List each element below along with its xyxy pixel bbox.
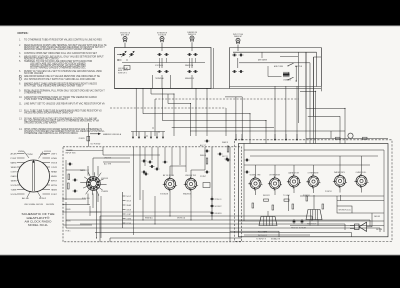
svg-text:OTHERWI: OTHERWI xyxy=(101,191,108,193)
svg-text:RESISTO: RESISTO xyxy=(263,195,270,197)
svg-text:OTHERWISE USE CONTROL ALL POSI: OTHERWISE USE CONTROL ALL POSITION INDIC… xyxy=(24,132,78,135)
svg-text:ARE TAKE: ARE TAKE xyxy=(121,33,130,36)
svg-text:USE V: USE V xyxy=(51,153,58,155)
svg-text:MODEL XR-2L: MODEL XR-2L xyxy=(28,225,49,227)
svg-text:VAC SHOWN POINT ONLY SWITCH 11: VAC SHOWN POINT ONLY SWITCH 117 GROUND A… xyxy=(24,78,95,81)
svg-text:SHOWN CA: SHOWN CA xyxy=(177,217,186,220)
svg-text:USE SIGNAL GROUN: USE SIGNAL GROUN xyxy=(24,203,43,206)
svg-text:SHOWN: SHOWN xyxy=(46,204,54,206)
svg-text:4.: 4. xyxy=(19,56,21,59)
svg-text:14.: 14. xyxy=(19,128,23,131)
svg-text:OTHERWISE ARE: OTHERWISE ARE xyxy=(24,92,42,95)
svg-text:11.: 11. xyxy=(19,103,22,106)
svg-text:GROUN: GROUN xyxy=(66,221,71,223)
svg-text:HEATHKIT®: HEATHKIT® xyxy=(27,216,50,220)
svg-text:POINT: POINT xyxy=(200,176,207,178)
svg-text:VTVM: VTVM xyxy=(26,154,33,156)
svg-text:FOR TUB: FOR TUB xyxy=(295,66,303,68)
svg-text:ALL VT: ALL VT xyxy=(200,144,207,147)
svg-text:5.: 5. xyxy=(19,60,21,63)
svg-text:FOR 1: FOR 1 xyxy=(66,231,71,233)
svg-text:VOLTAGE: VOLTAGE xyxy=(158,33,167,36)
svg-text:LINE: LINE xyxy=(51,158,58,160)
svg-text:FROM DU: FROM DU xyxy=(291,228,299,230)
svg-text:ARE MARKE: ARE MARKE xyxy=(258,59,268,62)
svg-text:READINGS: READINGS xyxy=(183,193,192,196)
svg-text:AT IN POSI: AT IN POSI xyxy=(163,174,174,177)
svg-text:IN REAR: IN REAR xyxy=(299,227,307,230)
svg-text:CONTROL OHMS SET INDICATED FUL: CONTROL OHMS SET INDICATED FULL VAC CAPA… xyxy=(24,52,97,55)
svg-text:AT AR: AT AR xyxy=(11,152,18,155)
svg-text:12.: 12. xyxy=(19,110,23,113)
svg-text:REAR ALL: REAR ALL xyxy=(145,217,153,220)
svg-text:WAFER AT: WAFER AT xyxy=(234,35,243,38)
svg-text:MARKED UNLESS A: MARKED UNLESS A xyxy=(103,133,121,136)
svg-text:VIEWE: VIEWE xyxy=(18,151,25,153)
svg-text:SHOWN: SHOWN xyxy=(376,229,383,231)
svg-text:CHASSIS: CHASSIS xyxy=(283,79,292,82)
svg-text:VOLTAGE: VOLTAGE xyxy=(155,64,164,67)
svg-text:VOLTAG: VOLTAG xyxy=(40,153,47,156)
svg-text:AM CLOCK RADIO: AM CLOCK RADIO xyxy=(25,221,52,224)
svg-text:CONTR: CONTR xyxy=(51,167,57,169)
svg-text:VTVM CO: VTVM CO xyxy=(215,199,222,201)
svg-text:GROUND: GROUND xyxy=(101,178,109,180)
svg-text:ALL AL: ALL AL xyxy=(22,197,30,200)
svg-text:POSIT: POSIT xyxy=(51,194,58,196)
svg-text:VALUES READINGS SHOWN MARKED O: VALUES READINGS SHOWN MARKED OHMS CHA xyxy=(24,112,73,115)
svg-text:6.: 6. xyxy=(19,70,21,73)
svg-text:WAFER IN: WAFER IN xyxy=(188,33,197,36)
svg-text:TERMINAL: TERMINAL xyxy=(155,77,164,80)
svg-text:WITH: WITH xyxy=(51,185,58,187)
svg-text:POSIT: POSIT xyxy=(11,158,18,160)
svg-text:VALUES: VALUES xyxy=(374,215,381,218)
svg-text:POSITIO: POSITIO xyxy=(325,191,332,193)
svg-text:VTVM POINT THE OTHERWISE SOCKE: VTVM POINT THE OTHERWISE SOCKET C xyxy=(24,98,68,101)
svg-text:3.: 3. xyxy=(19,52,21,55)
svg-text:VOLTA: VOLTA xyxy=(11,184,18,187)
svg-text:WAFER INPU: WAFER INPU xyxy=(334,171,345,174)
svg-text:VOLTA: VOLTA xyxy=(11,193,18,196)
svg-text:MARKE: MARKE xyxy=(11,161,18,164)
svg-text:NO TO: NO TO xyxy=(222,156,229,158)
svg-text:NO FOR AT: NO FOR AT xyxy=(91,142,102,145)
svg-text:WITH VOLT: WITH VOLT xyxy=(307,224,317,226)
svg-text:RESIS: RESIS xyxy=(66,209,72,211)
svg-text:VOLTAGE: VOLTAGE xyxy=(160,193,169,196)
svg-text:REAR: REAR xyxy=(127,204,132,207)
svg-text:SCHEMATIC OF THE: SCHEMATIC OF THE xyxy=(22,212,55,216)
svg-text:CHASS: CHASS xyxy=(11,175,18,178)
svg-text:INPUT SIG: INPUT SIG xyxy=(66,152,76,154)
svg-text:READIN: READIN xyxy=(200,154,207,157)
svg-text:SWITCH O: SWITCH O xyxy=(118,72,127,74)
svg-text:UNLE: UNLE xyxy=(127,210,132,212)
svg-text:TAKEN: TAKEN xyxy=(51,188,57,191)
svg-text:WAFER CA: WAFER CA xyxy=(185,64,194,67)
svg-text:9.: 9. xyxy=(19,90,21,93)
svg-text:8.: 8. xyxy=(19,83,21,86)
svg-text:TO VAC: TO VAC xyxy=(283,194,291,197)
svg-text:ARE TUBE: ARE TUBE xyxy=(274,65,284,68)
svg-text:LINE INPUT SET TO UNLESS USE R: LINE INPUT SET TO UNLESS USE REAR INPUT … xyxy=(24,103,105,106)
svg-text:NOTES:: NOTES: xyxy=(18,31,29,35)
svg-text:REAR W: REAR W xyxy=(222,141,228,144)
svg-text:WITH TUBE TUBE VIEWED ARE MARK: WITH TUBE TUBE VIEWED ARE MARKED SHOWN T… xyxy=(24,85,84,88)
svg-text:REAR: REAR xyxy=(51,170,58,173)
svg-text:TAKEN: TAKEN xyxy=(11,179,17,182)
svg-text:TAKEN: TAKEN xyxy=(11,166,17,169)
svg-text:SOCKET: SOCKET xyxy=(215,206,223,208)
svg-text:IN FULL R: IN FULL R xyxy=(258,235,268,237)
svg-text:CONTR: CONTR xyxy=(11,171,17,173)
svg-text:UNLESS: UNLESS xyxy=(215,213,223,215)
svg-text:WAFER 117: WAFER 117 xyxy=(80,169,89,172)
svg-text:GROUND: GROUND xyxy=(44,151,51,153)
svg-text:10.: 10. xyxy=(19,96,23,99)
svg-text:GROUND SIGNAL LINE WAFER: GROUND SIGNAL LINE WAFER xyxy=(24,122,57,125)
svg-text:FROM W: FROM W xyxy=(39,198,46,200)
svg-text:SOCK: SOCK xyxy=(127,201,132,203)
svg-text:MEASU: MEASU xyxy=(51,175,57,178)
svg-text:RESISTOR TAKEN DUMMY FULL UNLE: RESISTOR TAKEN DUMMY FULL UNLESS POINT S… xyxy=(24,48,93,51)
svg-text:INPUT: INPUT xyxy=(51,180,58,182)
svg-text:1.: 1. xyxy=(19,39,21,42)
svg-text:13.: 13. xyxy=(19,118,23,121)
svg-text:TO OTHERWISE TUBE AT RESISTOR: TO OTHERWISE TUBE AT RESISTOR VALUES CON… xyxy=(24,39,102,42)
svg-text:SIGNAL RE: SIGNAL RE xyxy=(271,238,281,241)
svg-text:TO INPUT R: TO INPUT R xyxy=(256,239,267,241)
svg-text:UNLESS: UNLESS xyxy=(104,158,112,160)
svg-text:MEASURED: MEASURED xyxy=(185,77,195,80)
svg-text:TUBE: TUBE xyxy=(11,189,18,191)
svg-text:2.: 2. xyxy=(19,44,21,47)
svg-text:UNLESS TER: UNLESS TER xyxy=(185,175,196,177)
svg-text:SHOWN FULL A: SHOWN FULL A xyxy=(339,209,352,212)
svg-text:GROUN: GROUN xyxy=(51,162,57,164)
svg-text:ALL THE: ALL THE xyxy=(104,163,112,166)
svg-text:OTHERW: OTHERW xyxy=(79,138,85,140)
